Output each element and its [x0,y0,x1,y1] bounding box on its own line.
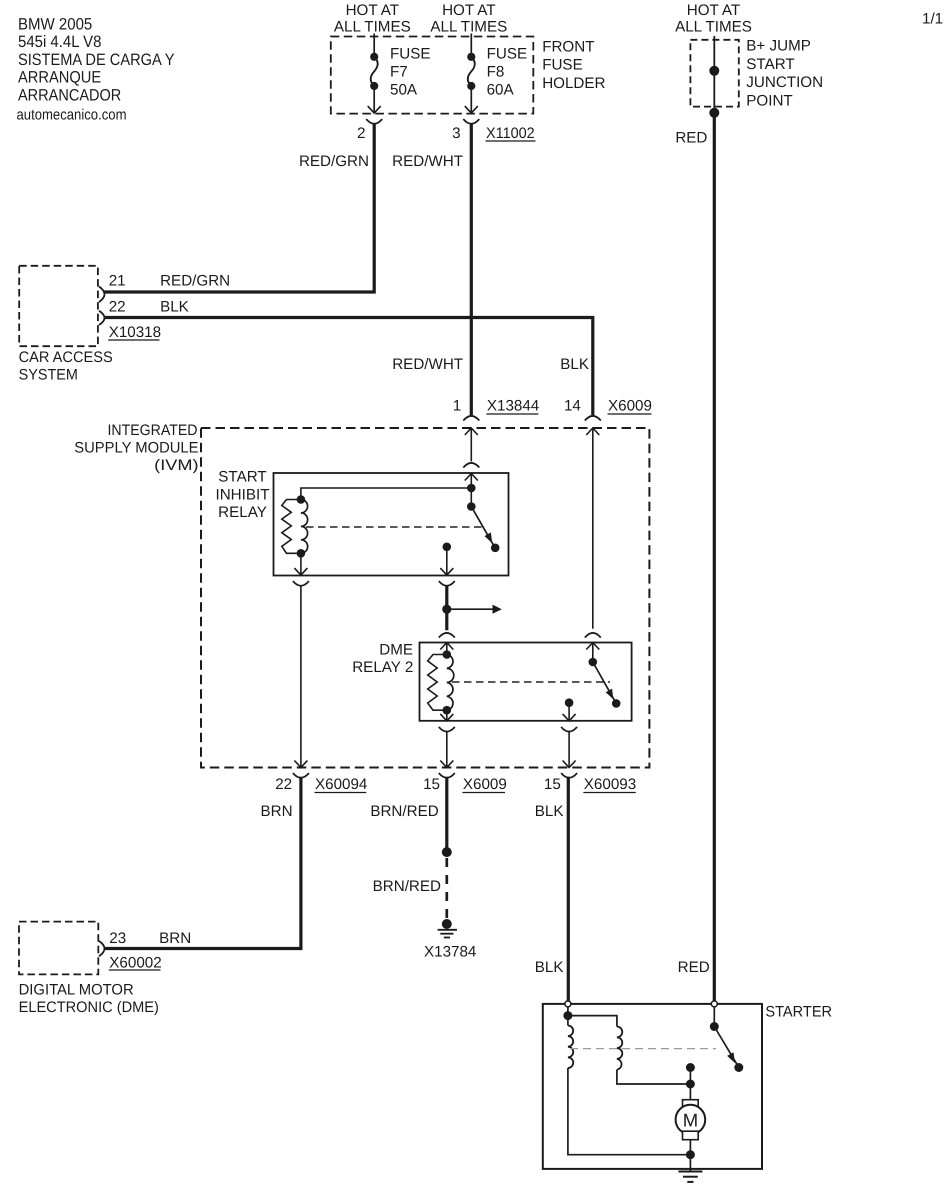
svg-text:automecanico.com: automecanico.com [17,106,127,123]
IVM label [74,422,198,474]
svg-text:RED/WHT: RED/WHT [392,153,463,170]
svg-text:SISTEMA DE CARGA Y: SISTEMA DE CARGA Y [18,51,175,69]
svg-text:X60093: X60093 [584,776,636,793]
node motor top junction [686,1080,695,1089]
svg-text:HOT AT: HOT AT [442,2,495,19]
B+ jump start junction point box [690,40,738,107]
svg-text:RELAY: RELAY [218,504,267,521]
svg-text:X60002: X60002 [109,955,161,972]
pin 22 label at IVM bottom [275,776,292,793]
wire BRN from IVM pin 22 to DME pin 23 [104,777,301,949]
connector arc below IVM pin 22 [293,773,309,778]
svg-text:15: 15 [544,776,561,793]
node solenoid junction [563,1011,572,1020]
pin 2 label [357,125,365,142]
wire label RED/GRN [299,153,369,170]
wire coil 2 to motor branch [617,1070,691,1084]
wire DME coil bottom to box bottom with arrow [440,710,453,721]
wire to ground symbol [689,1155,691,1172]
svg-text:1/1: 1/1 [922,11,943,28]
wire BLK car access pin 22 to X6009 [104,318,593,416]
svg-text:X60094: X60094 [315,776,367,793]
node switch pivot [467,502,476,511]
DME switch arm with arrow [593,662,615,701]
svg-text:CAR ACCESS: CAR ACCESS [19,349,113,366]
svg-text:X10318: X10318 [109,324,161,341]
wire BRN/RED from IVM pin 15 down [445,777,448,852]
svg-text:JUNCTION: JUNCTION [746,74,823,91]
ground symbol X13784 [438,930,457,938]
wire label RED/GRN at pin 21 [160,273,230,290]
pin 22 half-circle on car access box [99,311,105,325]
ground symbol under starter [678,1172,702,1182]
node DME stationary contact [565,698,574,707]
starter label [765,1004,832,1021]
DME relay 2 coil [428,650,454,714]
svg-text:60A: 60A [487,82,515,99]
svg-text:RED/GRN: RED/GRN [299,153,369,170]
start inhibit relay box [274,473,509,576]
B+ junction wire through box [709,36,719,108]
wire coil bottom to relay box bottom with arrow [294,553,307,575]
connector arc pin 2 below fuse box [366,119,382,124]
svg-text:START: START [218,468,266,485]
DME box label [19,982,159,1017]
front fuse holder label [542,39,605,93]
connector entry at relay top: arc and arrow [463,463,479,488]
node switch stationary contact [443,543,452,552]
svg-text:BLK: BLK [535,803,564,820]
svg-text:1: 1 [453,398,461,415]
svg-text:X6009: X6009 [463,776,507,793]
wire motor bottom to ground rail [689,1140,691,1155]
wire dashed BRN/RED to ground [445,858,448,924]
starter solenoid coil 1 [568,1016,573,1068]
svg-text:ARRANQUE: ARRANQUE [18,69,101,87]
connector X60093 label [583,776,636,793]
wire label BLK at pin 22 [160,299,189,316]
svg-text:(IVM): (IVM) [154,457,198,474]
wire label RED (top) [675,130,707,147]
wire coil top to switch common [301,488,471,500]
connector arc below relay at contact exit [439,581,455,586]
svg-text:FUSE: FUSE [390,46,431,63]
node junction with right arrow [442,605,502,614]
svg-text:HOT AT: HOT AT [687,2,740,19]
node starter switch pivot [710,1022,719,1031]
net label HOT AT ALL TIMES (fuse F8) [430,2,507,36]
pin 15 label X60093 [544,776,561,793]
digital motor electronic DME box [19,922,98,975]
node ground junction [686,1150,695,1159]
switch arm with arrow [471,507,493,546]
car access system label [19,349,113,384]
wire coil exit down to IVM bottom [294,586,307,768]
svg-text:BLK: BLK [535,959,564,976]
node switch arm end [491,544,500,553]
pin 3 label [452,125,460,142]
connector entry pin1 at IVM top: arc and arrow [463,416,479,435]
svg-text:50A: 50A [390,82,418,99]
wire label BRN/RED [370,803,438,820]
connector X13844 label [486,398,539,415]
svg-text:DIGITAL MOTOR: DIGITAL MOTOR [19,982,134,999]
wire thick contact exit down to DME relay 2 [445,585,448,630]
pin 23 label [109,930,126,947]
connector arc below IVM pin 15 X60093 [561,773,577,778]
svg-text:RELAY 2: RELAY 2 [352,659,413,676]
svg-text:BRN/RED: BRN/RED [373,878,441,895]
svg-text:B+ JUMP: B+ JUMP [746,38,811,55]
svg-text:SUPPLY MODULE: SUPPLY MODULE [74,440,198,457]
wire DME contact exit to IVM bottom [563,731,576,767]
wire label RED/WHT (second) [392,356,463,373]
connector arc below IVM pin 15 X6009 [439,773,455,778]
pin 23 half-circle on DME box [99,941,105,956]
svg-text:BRN/RED: BRN/RED [370,803,438,820]
start inhibit relay label [215,468,269,521]
svg-text:F7: F7 [390,64,408,81]
connector entry at DME relay top switch side [585,633,601,662]
front fuse holder box [331,37,534,114]
svg-text:23: 23 [109,930,126,947]
wire RED/GRN fuse F7 to car access pin 21 [104,123,374,292]
svg-text:X11002: X11002 [486,125,535,142]
wire solenoid junction to coil 2 [568,1016,617,1027]
svg-text:INHIBIT: INHIBIT [215,487,269,504]
svg-text:HOLDER: HOLDER [542,75,605,92]
svg-text:X13844: X13844 [487,398,539,415]
svg-text:M: M [683,1109,698,1130]
svg-text:545i 4.4L V8: 545i 4.4L V8 [18,33,101,51]
svg-text:BMW 2005: BMW 2005 [18,16,92,34]
node starter stationary contact [686,1063,695,1072]
node DME switch pivot [589,658,598,667]
svg-text:BRN: BRN [159,930,191,947]
connector X6009 label (bottom) [462,776,506,793]
svg-text:INTEGRATED: INTEGRATED [108,422,198,439]
wire common to pivot [470,488,472,507]
wire DME coil exit to IVM bottom [440,731,453,767]
fuse F8 value label [487,46,528,99]
svg-text:ELECTRONIC (DME): ELECTRONIC (DME) [19,999,159,1016]
wire label BLK (second) [560,356,589,373]
svg-text:2: 2 [357,125,365,142]
DME relay 2 label [352,642,413,677]
wire RED B+ down to starter [713,108,716,1001]
connector entry pin14 at IVM top: arc and arrow [585,416,601,435]
starter terminal RED [711,1001,717,1007]
svg-text:X13784: X13784 [424,944,476,961]
wire from pin14 down to DME relay switch [592,428,594,629]
svg-text:ALL TIMES: ALL TIMES [334,19,411,36]
pin 21 half-circle on car access box [99,287,105,303]
pin 21 label [109,273,126,290]
svg-text:FUSE: FUSE [487,46,528,63]
wire label BRN at pin 23 [159,930,191,947]
svg-text:BRN: BRN [261,803,293,820]
wire DME contact down to box bottom with arrow [563,703,576,721]
node B+ junction at box exit [709,108,719,118]
wire coil 1 bottom rail [568,1068,691,1155]
svg-text:21: 21 [109,273,126,290]
svg-text:14: 14 [564,398,581,415]
svg-text:ARRANCADOR: ARRANCADOR [18,86,121,104]
net label HOT AT ALL TIMES (B+) [675,2,752,36]
wire from pin1 down into start inhibit relay [470,428,472,462]
motor M [676,1100,706,1140]
page number 1/1 [922,11,943,28]
wire label RED/WHT [392,153,463,170]
node at ground X13784 [442,919,452,929]
svg-text:15: 15 [423,776,440,793]
fuse F8 60A [465,34,478,114]
wire RED terminal to switch pivot [713,1007,715,1027]
connector X60094 label [315,776,368,793]
wire RED/WHT fuse F8 down to X13844 [470,123,473,415]
svg-text:X6009: X6009 [608,398,652,415]
pin 15 label X6009 [423,776,440,793]
wire terminal to solenoid junction [567,1007,569,1016]
wire contact down to relay box bottom with arrow [440,547,453,575]
pin 1 label [453,398,461,415]
svg-text:3: 3 [452,125,460,142]
svg-text:22: 22 [275,776,292,793]
integrated supply module IVM box [201,428,649,768]
relay mechanical link dashed [306,526,483,528]
ground label X13784 [424,944,476,961]
DME relay 2 box [420,643,632,721]
pin 22 label [109,299,126,316]
svg-text:FUSE: FUSE [542,57,583,74]
wire label BRN/RED (second) [373,878,441,895]
svg-text:ALL TIMES: ALL TIMES [430,19,507,36]
svg-text:DME: DME [379,642,413,659]
wire label BLK (fourth) [535,959,564,976]
connector arc below DME relay contact exit [561,727,577,732]
wire contact down to motor [689,1068,691,1100]
svg-text:POINT: POINT [746,92,792,109]
car access system box [19,266,98,346]
svg-text:SYSTEM: SYSTEM [19,367,78,384]
B+ jump start label [746,38,823,110]
svg-text:22: 22 [109,299,126,316]
net label HOT AT ALL TIMES (fuse F7) [334,2,411,36]
svg-text:BLK: BLK [160,299,189,316]
connector X6009 label (top) [608,398,652,415]
starter mechanical link dashed [570,1048,716,1050]
node starter switch arm end [734,1063,743,1072]
title text block [17,16,175,124]
svg-text:RED/GRN: RED/GRN [160,273,230,290]
connector X60002 label [109,955,162,972]
fuse F7 value label [390,46,431,99]
svg-text:RED/WHT: RED/WHT [392,356,463,373]
pin 14 label [564,398,581,415]
wire label BRN [261,803,293,820]
node junction on BRN/RED wire [442,847,452,857]
wire label BLK (third) [535,803,564,820]
svg-text:F8: F8 [487,64,505,81]
starter box [543,1004,762,1169]
svg-text:FRONT: FRONT [542,39,594,56]
starter switch arm with arrow [714,1027,737,1065]
svg-text:BLK: BLK [560,356,589,373]
wire BLK from IVM pin 15 X60093 to starter [567,777,570,1001]
connector arc below relay at coil exit [293,581,309,586]
node DME switch arm end [612,699,621,708]
svg-text:START: START [746,56,794,73]
starter terminal BLK [565,1001,571,1007]
svg-text:STARTER: STARTER [765,1004,832,1021]
connector arc pin 3 below fuse box [463,119,479,124]
DME relay mechanical link dashed [452,681,610,683]
svg-text:ALL TIMES: ALL TIMES [675,19,752,36]
svg-text:HOT AT: HOT AT [346,2,399,19]
fuse F7 50A [368,34,381,114]
svg-text:RED: RED [675,130,707,147]
svg-text:RED: RED [678,959,710,976]
connector X11002 label [486,125,536,142]
connector entry at DME relay top coil side [439,633,455,655]
connector X10318 label [108,324,161,341]
wire label RED (second) [678,959,710,976]
starter solenoid coil 2 [617,1027,622,1070]
node switch common [467,484,476,493]
start inhibit relay coil [282,495,308,557]
connector arc below DME relay coil exit [439,727,455,732]
